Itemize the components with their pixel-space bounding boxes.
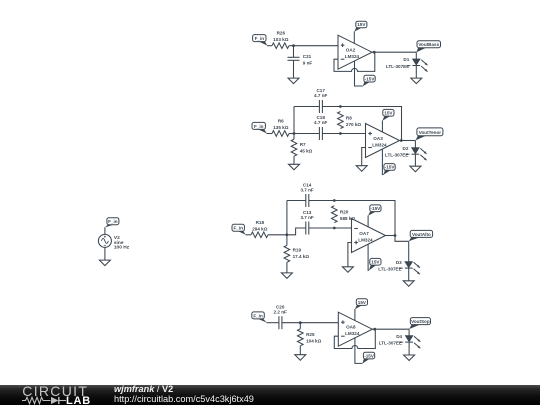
capacitor C21 <box>288 57 300 60</box>
resistor R19 <box>284 245 290 262</box>
label V2 value <box>114 235 130 251</box>
svg-text:15V: 15V <box>371 260 380 265</box>
wire output jog to VoutAlto corner <box>395 236 409 242</box>
label D3 <box>378 260 403 272</box>
ground (R19) <box>281 273 292 279</box>
wire node A3 up to top branch <box>286 201 288 235</box>
wire OA7 +in to ground <box>348 243 352 267</box>
svg-text:VoutSop: VoutSop <box>411 319 430 324</box>
label C14 value <box>300 183 313 193</box>
op-amp OA8 <box>338 312 372 346</box>
wire D4 to ground <box>408 342 410 355</box>
label D4 <box>379 334 404 346</box>
label C20 value <box>274 305 287 315</box>
svg-text:OA3: OA3 <box>373 136 383 141</box>
label C21 value <box>303 54 313 66</box>
svg-text:LM324: LM324 <box>345 54 360 59</box>
svg-text:270 kΩ: 270 kΩ <box>346 122 361 127</box>
wire node A2 to C18 <box>294 133 319 135</box>
ground (R25) <box>295 355 306 361</box>
svg-text:103 kΩ: 103 kΩ <box>273 37 288 42</box>
wire top branch to C17 <box>294 106 319 108</box>
svg-text:294 kΩ: 294 kΩ <box>252 226 267 231</box>
svg-text:R19: R19 <box>293 247 302 252</box>
net flag F_in (stage 1 input) <box>253 35 268 46</box>
svg-text:100 Hz: 100 Hz <box>114 245 130 251</box>
wire OA3 V+ pin to 15V <box>381 121 383 133</box>
node OA3 output junction <box>400 139 403 142</box>
svg-text:-15V: -15V <box>365 76 376 81</box>
power flag -15V (OA2) <box>363 75 376 86</box>
wire OA8 V+ pin to 15V <box>354 309 356 321</box>
svg-text:LM324: LM324 <box>345 331 360 336</box>
node A3 junction <box>286 233 289 236</box>
wire V2 to ground <box>104 247 106 260</box>
svg-text:R25: R25 <box>306 332 315 337</box>
label OA3 LM324 <box>372 136 387 148</box>
wire OA2 V- pin to -15V <box>355 61 363 86</box>
ground (D2) <box>410 166 421 172</box>
label OA7 LM324 <box>358 231 373 243</box>
wire node A1 to op-amp OA2 +in <box>294 45 339 47</box>
net flag VoutSop <box>409 318 430 330</box>
svg-text:2.2 nF: 2.2 nF <box>274 310 287 315</box>
svg-text:LTL-307EE: LTL-307EE <box>379 341 402 346</box>
wire corner down to D3 <box>408 241 410 261</box>
net flag VoutBass <box>416 41 440 53</box>
label R8 value <box>346 115 361 127</box>
ground (D1) <box>411 78 422 84</box>
svg-text:LTL-307EE: LTL-307EE <box>385 153 408 158</box>
wire R18 to node A3 <box>268 234 287 236</box>
svg-text:F_in: F_in <box>108 219 118 224</box>
svg-text:104 kΩ: 104 kΩ <box>306 338 321 343</box>
svg-text:135 kΩ: 135 kΩ <box>273 125 288 130</box>
svg-text:4.7 nF: 4.7 nF <box>314 120 327 125</box>
resistor R8 <box>338 112 344 129</box>
label R7 value <box>300 142 313 154</box>
svg-text:45 kΩ: 45 kΩ <box>300 149 313 154</box>
svg-text:LTL-307EE: LTL-307EE <box>386 64 409 69</box>
svg-text:LTL-307EE: LTL-307EE <box>378 267 401 272</box>
wire node A2 up to top branch <box>293 107 295 134</box>
svg-text:-15V: -15V <box>385 165 396 170</box>
label C17 value <box>314 88 327 98</box>
wire C17 to node B2 <box>322 106 340 108</box>
label D2 <box>385 146 410 158</box>
ground (D4) <box>404 355 415 361</box>
power flag 15V (OA3) <box>382 109 394 120</box>
wire OA3 V- pin to -15V <box>382 149 383 175</box>
label OA2 LM324 <box>345 48 360 60</box>
wire OA7 V+ pin to 15V <box>368 244 369 270</box>
wire OA2 output to VoutBass corner <box>372 51 416 53</box>
svg-text:R6: R6 <box>278 119 284 124</box>
svg-text:D1: D1 <box>403 57 409 62</box>
net flag F_in (stage 4 input) <box>252 312 267 323</box>
label R19 value <box>293 247 310 258</box>
power flag -15V (OA8) <box>362 352 375 363</box>
LED D2 <box>412 148 427 161</box>
wire F_in flag to V2 <box>104 227 106 234</box>
resistor R25 <box>298 329 304 346</box>
wire F_in to C20 <box>267 322 279 324</box>
net flag F_in (source) <box>105 218 119 228</box>
ground (R7) <box>289 164 300 170</box>
wire OA8 V- pin to -15V <box>355 338 362 364</box>
svg-text:9 nF: 9 nF <box>303 61 313 66</box>
wire R26 to node A1 <box>289 45 294 47</box>
resistor R7 lead <box>293 134 295 140</box>
net flag VoutAlto <box>409 230 433 241</box>
wire OA8 feedback loop (with hop) <box>334 329 375 348</box>
svg-text:F_in: F_in <box>233 226 243 231</box>
power flag -15V (OA7) <box>368 205 381 216</box>
node B2 junction (R8 top) <box>339 105 342 108</box>
label D1 <box>386 57 411 69</box>
wire C18 to node C2 <box>322 133 340 135</box>
wire D1 to ground <box>415 66 417 79</box>
resistor R7 <box>291 139 297 156</box>
power flag 15V (OA7) <box>369 258 381 270</box>
svg-text:LM324: LM324 <box>358 237 373 242</box>
svg-text:D2: D2 <box>403 146 409 151</box>
power flag 15V (OA8) <box>355 299 368 310</box>
svg-text:588 kΩ: 588 kΩ <box>340 216 355 221</box>
svg-text:VoutAlto: VoutAlto <box>412 232 431 237</box>
net flag F_in (stage 3 input) <box>232 224 246 234</box>
voltage source V2 <box>98 234 111 247</box>
wire F_in to R18 <box>246 234 252 236</box>
net flag VoutTenor <box>415 128 443 140</box>
label R6 value <box>273 119 288 131</box>
power flag -15V (OA3) <box>383 164 395 175</box>
resistor R26 <box>272 43 289 49</box>
label R26 value <box>273 31 288 43</box>
wire C14 to node B3 <box>309 200 335 202</box>
node C3 junction (R20 bottom) <box>333 227 336 230</box>
op-amp OA3 <box>366 124 400 158</box>
svg-text:F_in: F_in <box>254 124 264 129</box>
ground (C21) <box>288 78 299 84</box>
resistor R18 <box>251 232 268 238</box>
LED D4 <box>405 336 420 349</box>
wire R19 to ground <box>286 262 288 273</box>
resistor R25 lead <box>299 323 301 329</box>
svg-text:C21: C21 <box>303 54 312 59</box>
node OA7 output junction <box>394 234 397 237</box>
op-amp OA2 <box>338 35 372 69</box>
svg-text:R20: R20 <box>340 209 349 214</box>
svg-text:R8: R8 <box>346 115 352 120</box>
svg-text:OA7: OA7 <box>359 231 369 236</box>
wire R25 to ground <box>299 346 301 355</box>
ground (D3) <box>403 281 414 287</box>
label R20 value <box>340 209 355 221</box>
ground (OA7 +in) <box>342 267 353 273</box>
svg-text:D3: D3 <box>396 260 402 265</box>
svg-text:-15V: -15V <box>371 206 382 211</box>
svg-text:17.4 kΩ: 17.4 kΩ <box>293 254 310 259</box>
resistor R6 <box>272 131 289 137</box>
capacitor C18 <box>319 127 322 140</box>
svg-text:R7: R7 <box>300 142 306 147</box>
wire node A1 down to C21 <box>293 46 295 58</box>
node C2 junction (R8 bottom) <box>339 132 342 135</box>
svg-text:OA2: OA2 <box>346 48 356 53</box>
wire top branch B3 to feedback corner <box>334 201 395 236</box>
wire C21 to ground <box>293 60 295 78</box>
wire OA3 output to VoutTenor corner <box>400 140 416 142</box>
op-amp OA7 <box>352 219 386 253</box>
label R18 value <box>252 220 267 232</box>
wire top branch to C14 <box>287 200 306 202</box>
footer bar <box>0 385 540 405</box>
net flag F_in (stage 2 input) <box>252 122 267 133</box>
svg-text:15V: 15V <box>358 300 367 305</box>
label C18 value <box>314 115 327 125</box>
svg-text:LM324: LM324 <box>372 142 387 147</box>
wire F_in to R26 <box>267 45 272 47</box>
svg-text:VoutTenor: VoutTenor <box>419 130 441 135</box>
LED D1 <box>412 59 427 72</box>
ground (OA3 -in) <box>356 166 367 172</box>
svg-text:-15V: -15V <box>364 353 375 358</box>
wire output corner down to D1 <box>415 52 417 59</box>
wire D3 to ground <box>408 268 410 281</box>
wire C20 to node A4 <box>282 322 300 324</box>
svg-text:OA8: OA8 <box>346 325 356 330</box>
wire D2 to ground <box>414 154 416 166</box>
wire node A3 jog to C13 row <box>287 228 306 235</box>
capacitor C20 <box>279 316 282 329</box>
node A1 junction <box>292 44 295 47</box>
node B3 junction (R20 top) <box>333 199 336 202</box>
capacitor C17 <box>319 100 322 113</box>
wire C13 to node C3 <box>309 227 335 229</box>
svg-text:15V: 15V <box>384 111 393 116</box>
capacitor C14 <box>306 194 309 207</box>
svg-text:F_in: F_in <box>255 36 265 41</box>
label OA8 LM324 <box>345 325 360 337</box>
svg-text:D4: D4 <box>396 334 402 339</box>
CircuitLab logo <box>0 385 110 405</box>
LED D3 <box>405 262 420 275</box>
svg-text:15V: 15V <box>357 22 366 27</box>
svg-text:R26: R26 <box>277 31 286 36</box>
label C13 value <box>300 210 313 220</box>
node A2 junction <box>293 132 296 135</box>
wire OA7 V- pin to -15V <box>367 216 369 228</box>
wire R6 to node A2 <box>289 133 294 135</box>
wire OA2 feedback loop (with hop) <box>334 52 375 71</box>
resistor R20 <box>332 206 338 223</box>
resistor R19 lead <box>286 235 288 246</box>
svg-text:4.7 nF: 4.7 nF <box>314 93 327 98</box>
wire OA3 -in to ground <box>362 148 366 166</box>
wire output corner down to D2 <box>414 141 416 148</box>
svg-text:VoutBass: VoutBass <box>418 42 439 47</box>
wire node A4 to op-amp OA8 +in <box>300 322 338 324</box>
wire OA7 output stub <box>386 235 396 237</box>
svg-text:F_in: F_in <box>253 313 263 318</box>
wire top branch B2 to feedback corner <box>340 107 401 141</box>
node A4 junction <box>299 321 302 324</box>
node OA8 output junction <box>373 328 376 331</box>
wire node C3 to op-amp OA7 -in <box>334 227 351 229</box>
ground (V2) <box>99 260 110 266</box>
wire OA8 output to VoutSop corner <box>372 328 409 330</box>
wire OA2 V+ pin to 15V <box>353 32 355 44</box>
wire R7 to ground <box>293 156 295 164</box>
svg-text:3.7 nF: 3.7 nF <box>300 215 313 220</box>
wire output corner down to D4 <box>408 329 410 335</box>
wire F_in to R6 <box>267 133 273 135</box>
svg-text:R18: R18 <box>256 220 265 225</box>
wire node C2 to op-amp OA3 +in <box>340 133 365 135</box>
label R25 value <box>306 332 321 344</box>
node OA2 output junction <box>373 51 376 54</box>
svg-text:3.7 nF: 3.7 nF <box>300 188 313 193</box>
power flag 15V (OA2) <box>354 21 367 32</box>
capacitor C13 <box>306 222 309 235</box>
